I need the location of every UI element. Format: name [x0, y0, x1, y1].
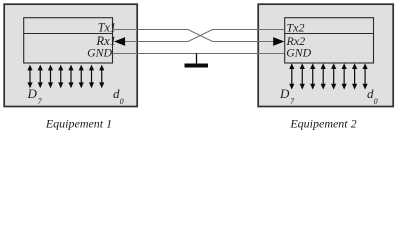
svg-text:Tx2: Tx2: [287, 21, 305, 35]
svg-text:0: 0: [374, 97, 378, 106]
bus bit arrow R1: [352, 63, 357, 89]
bus bit arrow L2: [79, 65, 84, 89]
svg-text:GND: GND: [87, 45, 112, 59]
interface block U1 (inner box, equipment 1): [24, 18, 113, 63]
svg-text:GND: GND: [286, 45, 311, 59]
bus bit arrow L1: [89, 65, 94, 89]
bus bit arrow R7: [289, 63, 294, 89]
bus bit arrow L7: [27, 65, 32, 89]
arrowhead into Rx2: [273, 37, 284, 46]
svg-text:0: 0: [120, 97, 124, 106]
bus bit arrow R4: [321, 63, 326, 89]
interface block U2 (inner box, equipment 2): [285, 18, 374, 63]
svg-text:D: D: [279, 86, 290, 101]
bus bit arrow L6: [38, 65, 43, 89]
bus bit arrow R0: [362, 63, 367, 89]
svg-text:Tx1: Tx1: [98, 21, 116, 35]
bus bit arrow R2: [342, 63, 347, 89]
bus bit arrow R6: [300, 63, 305, 89]
svg-text:Equipement 1: Equipement 1: [45, 117, 112, 131]
bus bit arrow R3: [331, 63, 336, 89]
svg-text:Equipement 2: Equipement 2: [289, 117, 356, 131]
arrowhead into Rx1: [114, 37, 125, 46]
ground: [196, 54, 198, 65]
wire Tx1 to Rx2 (crossover): [113, 30, 274, 42]
divider under Tx2 row: [285, 33, 374, 35]
bus bit arrow L5: [48, 65, 53, 89]
wire GND common: [113, 53, 285, 55]
bus bit arrow L4: [58, 65, 63, 89]
wire Tx2 to Rx1 (crossover): [125, 30, 285, 42]
data bus arrows D7..d0 (equipment 2): [289, 63, 367, 89]
data bus arrows D7..d0 (equipment 1): [27, 65, 104, 89]
equipment box 1 (outer): [4, 4, 137, 106]
bus bit arrow L0: [99, 65, 104, 89]
equipment box 2 (outer): [258, 4, 393, 106]
svg-text:D: D: [27, 86, 38, 101]
bus bit arrow L3: [68, 65, 73, 89]
bus bit arrow R5: [310, 63, 315, 89]
divider under Tx1 row: [24, 33, 113, 35]
